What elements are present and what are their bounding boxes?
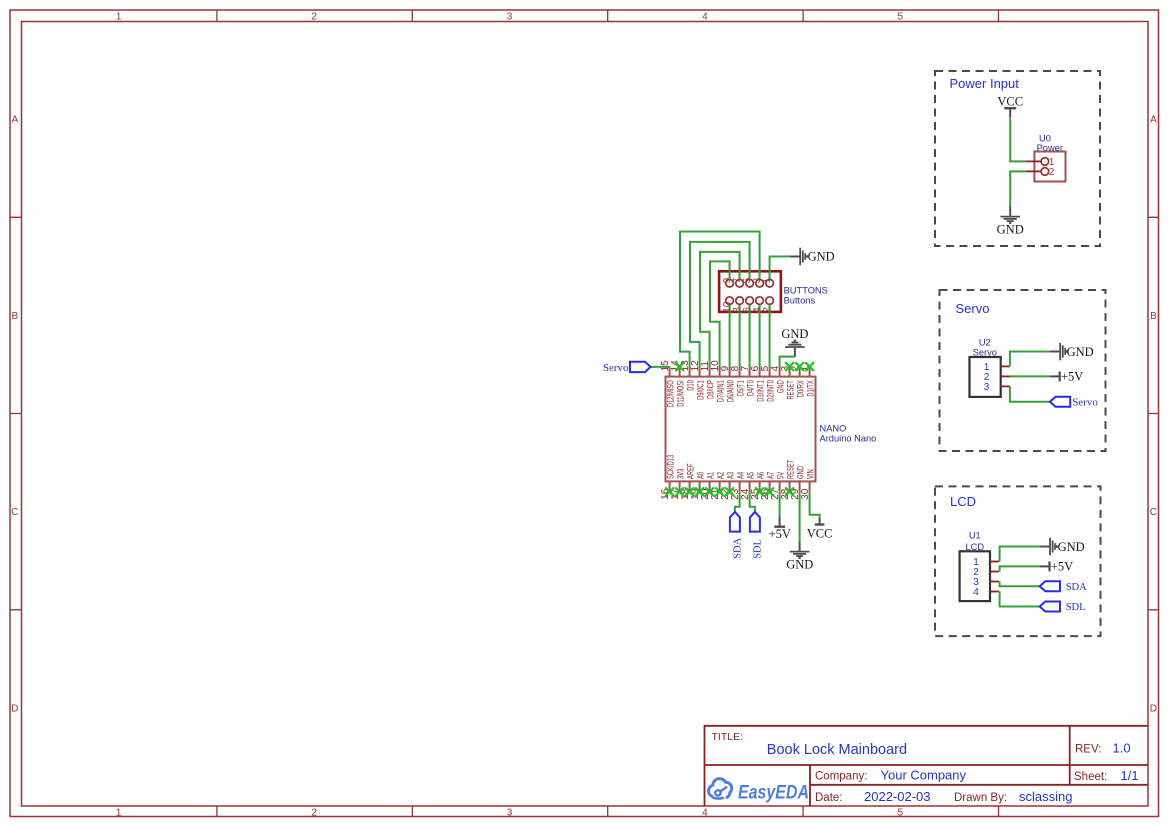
svg-text:RESET: RESET [786, 380, 796, 400]
wire U2 pin2 to +5V [1010, 375, 1050, 377]
svg-text:VCC: VCC [807, 527, 833, 541]
svg-text:D7/AIN1: D7/AIN1 [716, 380, 726, 402]
svg-text:TITLE:: TITLE: [712, 731, 744, 743]
port Servo (nano) [630, 362, 651, 372]
svg-text:RESET: RESET [786, 459, 796, 479]
wire button 6 to nano [749, 305, 751, 368]
wire U2 pin1 to GND [1010, 352, 1050, 367]
U2 pin 3 [1001, 385, 1010, 387]
svg-text:SDA: SDA [1066, 582, 1087, 593]
svg-text:3: 3 [507, 11, 513, 22]
wire VIN to VCC [810, 492, 820, 518]
wire A4 to SDA port [735, 492, 740, 512]
power symbol VCC (power input) [1004, 107, 1016, 109]
port SDA [730, 512, 740, 532]
svg-text:Sheet:: Sheet: [1074, 771, 1107, 783]
U2 pin 2 [1001, 375, 1010, 377]
U1 pin 1 [990, 561, 999, 563]
svg-text:A: A [11, 115, 18, 126]
no-connect X pin 25 [755, 487, 764, 496]
svg-text:4: 4 [702, 807, 708, 818]
svg-text:A6: A6 [756, 472, 766, 479]
power symbol +5V (pin27) [779, 517, 781, 527]
wire U1 pin1 to GND [1000, 547, 1040, 562]
U1 pin 4 [990, 591, 999, 593]
svg-text:GND: GND [997, 223, 1024, 237]
wire 5V pin27 [779, 492, 781, 517]
svg-text:GND: GND [786, 558, 813, 572]
arduino nano top pin stubs [670, 367, 810, 377]
svg-text:+5V: +5V [1051, 559, 1073, 573]
svg-text:5V: 5V [776, 472, 786, 479]
port Servo (servo box) [1050, 397, 1070, 407]
buttons top pin stubs [730, 271, 770, 279]
frame column ticks top [217, 10, 999, 22]
no-connect X pin 18 [685, 487, 694, 496]
wire U0 pin2 to GND [1010, 171, 1025, 206]
no-connect X pin 22 [725, 487, 734, 496]
svg-text:4: 4 [702, 11, 708, 22]
svg-text:D8/ICP: D8/ICP [706, 380, 716, 399]
svg-text:REV:: REV: [1075, 744, 1101, 756]
svg-text:Servo: Servo [956, 301, 990, 316]
svg-text:GND: GND [796, 466, 806, 479]
svg-text:A2: A2 [716, 472, 726, 479]
wire GND pin4 [780, 357, 795, 368]
svg-text:Book Lock Mainboard: Book Lock Mainboard [767, 742, 907, 758]
wire button 8 to nano [739, 305, 741, 368]
wire GND pin29 [799, 492, 801, 541]
no-connect X pin 17 [675, 487, 684, 496]
wire D9 to button 5 [690, 242, 750, 368]
svg-text:1: 1 [116, 11, 122, 22]
svg-text:AREF: AREF [686, 463, 696, 479]
no-connect X pin 16 [665, 487, 674, 496]
wire button 10 to nano [729, 305, 731, 368]
svg-text:D: D [11, 704, 18, 715]
svg-text:U2: U2 [979, 338, 991, 348]
svg-text:Buttons: Buttons [784, 296, 816, 306]
svg-text:2022-02-03: 2022-02-03 [864, 789, 931, 804]
svg-text:A4: A4 [736, 472, 746, 479]
svg-text:sclassing: sclassing [1019, 789, 1072, 804]
svg-text:A0: A0 [696, 472, 706, 479]
svg-text:D11/MOSI: D11/MOSI [676, 380, 686, 407]
wire VCC to U0 pin1 [1010, 117, 1025, 161]
ground symbol GND (servo) [1050, 351, 1060, 353]
no-connect X pin 21 [715, 487, 724, 496]
arduino nano bottom pin stubs [670, 481, 810, 491]
svg-text:D4/T0: D4/T0 [746, 380, 756, 396]
power symbol +5V (servo) [1050, 375, 1060, 377]
no-connect X pin 3 [785, 362, 794, 371]
svg-text:SDL: SDL [1066, 602, 1086, 613]
svg-text:2: 2 [311, 11, 317, 22]
wire button 4 to nano [759, 305, 761, 368]
wire U2 pin3 to Servo port [1010, 386, 1050, 401]
svg-text:5: 5 [898, 11, 904, 22]
svg-text:D2/INT0: D2/INT0 [766, 380, 776, 402]
svg-text:Company:: Company: [815, 771, 867, 783]
svg-text:LCD: LCD [965, 542, 984, 552]
no-connect X pin 26 [765, 487, 774, 496]
no-connect X pin 19 [695, 487, 704, 496]
svg-text:A5: A5 [746, 472, 756, 479]
svg-text:GND: GND [776, 380, 786, 393]
svg-text:4: 4 [973, 587, 979, 598]
svg-text:1.0: 1.0 [1113, 741, 1131, 756]
svg-text:D12/MISO: D12/MISO [666, 380, 676, 407]
ground symbol GND (pin4) [794, 347, 796, 356]
svg-text:NANO: NANO [820, 424, 847, 434]
svg-text:VCC: VCC [997, 95, 1023, 109]
svg-text:3: 3 [984, 382, 990, 393]
svg-text:SCK/D13: SCK/D13 [666, 455, 676, 479]
svg-text:3V3: 3V3 [676, 469, 686, 479]
title block row divider 1 [705, 764, 1149, 766]
svg-text:Servo: Servo [1072, 396, 1098, 408]
frame column ticks bottom [217, 806, 999, 817]
svg-text:2: 2 [311, 807, 317, 818]
svg-text:GND: GND [781, 327, 808, 341]
title block outline [705, 726, 1149, 806]
U2 pin 1 [1001, 365, 1010, 367]
svg-text:D3/INT1: D3/INT1 [756, 380, 766, 402]
ground symbol GND (pin29) [799, 541, 801, 551]
svg-text:LCD: LCD [950, 494, 976, 509]
svg-text:GND: GND [1067, 345, 1094, 359]
svg-text:+5V: +5V [1061, 369, 1083, 383]
no-connect X pin 20 [705, 487, 714, 496]
svg-text:3: 3 [507, 807, 513, 818]
title block logo cell divider [809, 765, 811, 806]
port SDL [750, 512, 760, 532]
svg-text:B: B [1150, 311, 1157, 322]
svg-text:U1: U1 [969, 530, 981, 540]
svg-text:Drawn By:: Drawn By: [954, 792, 1007, 804]
svg-text:VIN: VIN [806, 469, 816, 479]
power input dashed box [935, 71, 1100, 246]
svg-text:EasyEDA: EasyEDA [738, 782, 809, 803]
svg-text:C: C [11, 507, 18, 518]
lcd dashed box [935, 486, 1101, 636]
svg-text:GND: GND [1058, 540, 1085, 554]
wire D10 to button 3 [680, 232, 760, 368]
port SDA (lcd box) [1040, 581, 1060, 591]
svg-text:2: 2 [1049, 167, 1055, 178]
svg-text:Power Input: Power Input [950, 76, 1020, 91]
U1 pin 2 [990, 571, 999, 573]
power symbol +5V (lcd) [1040, 565, 1050, 567]
wire A5 to SDL port [750, 492, 755, 512]
no-connect X pin 1 [805, 362, 814, 371]
wire U1 pin3 to SDA port [1000, 582, 1040, 587]
wire U1 pin4 to SDL port [1000, 592, 1040, 607]
svg-text:C: C [1150, 507, 1157, 518]
buttons bottom pin stubs [730, 304, 770, 312]
svg-text:Arduino Nano: Arduino Nano [820, 434, 877, 444]
U1 pin 3 [990, 581, 999, 583]
arduino nano U3 body [666, 377, 816, 482]
svg-text:D6/AIN0: D6/AIN0 [726, 380, 736, 402]
svg-text:GND: GND [808, 250, 835, 264]
buttons bottom pin circles [726, 297, 734, 305]
svg-text:+5V: +5V [769, 527, 791, 541]
svg-text:2: 2 [762, 307, 773, 313]
svg-text:D9/0C1: D9/0C1 [696, 380, 706, 400]
wire D12/MISO to Servo port [651, 366, 670, 368]
U0 pin 2 [1026, 170, 1041, 172]
svg-text:1: 1 [762, 277, 773, 283]
svg-text:1/1: 1/1 [1121, 768, 1139, 783]
svg-text:BUTTONS: BUTTONS [784, 285, 828, 295]
wire D7 to button 9 [710, 261, 730, 367]
svg-text:Power: Power [1037, 143, 1063, 153]
wire D8 to button 7 [700, 252, 740, 368]
frame row ticks right [1148, 217, 1159, 610]
ground symbol GND (lcd) [1040, 546, 1050, 548]
svg-text:A7: A7 [766, 472, 776, 479]
U0 pin 1 [1026, 160, 1041, 162]
no-connect X pin 2 [795, 362, 804, 371]
buttons top pin circles [726, 279, 734, 287]
connector U0 body [1034, 152, 1065, 182]
title block rev cell divider [1069, 726, 1071, 785]
svg-text:SDL: SDL [752, 539, 763, 559]
frame row ticks left [10, 217, 22, 610]
svg-text:D10: D10 [686, 380, 696, 391]
EasyEDA logo cloud [709, 779, 732, 798]
no-connect X pin 14 [675, 362, 684, 371]
ground symbol GND (buttons) [790, 256, 800, 258]
svg-text:1: 1 [116, 807, 122, 818]
svg-text:A: A [1150, 115, 1157, 126]
ground symbol GND (power input) [1009, 206, 1011, 216]
svg-text:Date:: Date: [815, 792, 843, 804]
svg-text:A1: A1 [706, 472, 716, 479]
wire button 2 to nano [769, 305, 771, 368]
svg-text:D: D [1150, 704, 1157, 715]
svg-text:D0/RX: D0/RX [796, 380, 806, 397]
svg-text:D5/T1: D5/T1 [736, 380, 746, 396]
no-connect X pin 28 [785, 487, 794, 496]
svg-text:A3: A3 [726, 472, 736, 479]
svg-text:B: B [11, 311, 18, 322]
connector U1 body [960, 551, 990, 601]
connector U2 body [970, 357, 1001, 397]
svg-text:Servo: Servo [973, 348, 997, 358]
svg-text:SDA: SDA [732, 537, 743, 558]
power symbol VCC (pin30) [819, 518, 821, 525]
title block row divider 2 [810, 784, 1148, 786]
svg-text:Servo: Servo [603, 362, 629, 374]
wire U1 pin2 to +5V [1000, 566, 1040, 571]
servo dashed box [940, 290, 1106, 451]
port SDL (lcd box) [1040, 602, 1060, 612]
svg-text:Your Company: Your Company [881, 768, 967, 783]
svg-text:5: 5 [898, 807, 904, 818]
buttons connector body [719, 271, 781, 312]
svg-text:D1/TX: D1/TX [806, 380, 816, 396]
wire button 1 to GND [770, 257, 790, 280]
